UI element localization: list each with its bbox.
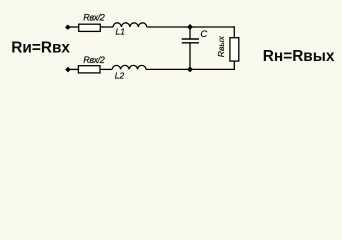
svg-text:Rвх/2: Rвх/2 (83, 12, 104, 22)
resistor R3 Rвх/2 (bottom) (78, 66, 100, 73)
inductor L1 (113, 23, 147, 27)
inductor L2 (112, 65, 146, 69)
wire: right vertical top segment (233, 26, 235, 37)
wire: junction down to capacitor (189, 27, 191, 39)
node: input terminal (bottom) (65, 67, 71, 73)
wire: right vertical bottom segment (233, 61, 235, 70)
node junction: top of C (187, 24, 193, 30)
wire: R3 to L2 (100, 68, 112, 70)
wire: capacitor down to bottom junction (189, 43, 191, 70)
resistor R1 Rвх/2 (top) (79, 24, 101, 31)
node junction: bottom of C (187, 66, 193, 72)
svg-text:Rн=Rвых: Rн=Rвых (263, 48, 335, 65)
wire: L2 to bottom-right corner (146, 68, 235, 70)
wire: R1 to L1 (100, 26, 113, 28)
wire: L1 to top-right corner (147, 26, 235, 28)
svg-text:Rи=Rвх: Rи=Rвх (11, 40, 70, 57)
svg-text:L1: L1 (116, 26, 126, 36)
node: input terminal (top) (65, 25, 71, 30)
resistor R2 Rвых (load, vertical) (230, 38, 239, 61)
svg-text:C: C (200, 29, 207, 40)
wire: bottom terminal to R3 (68, 68, 78, 70)
svg-text:Rвых: Rвых (216, 35, 226, 57)
capacitor C (182, 38, 199, 40)
svg-text:L2: L2 (115, 70, 125, 80)
wire: top terminal to R1 (68, 26, 79, 28)
svg-text:Rвх/2: Rвх/2 (83, 55, 104, 65)
